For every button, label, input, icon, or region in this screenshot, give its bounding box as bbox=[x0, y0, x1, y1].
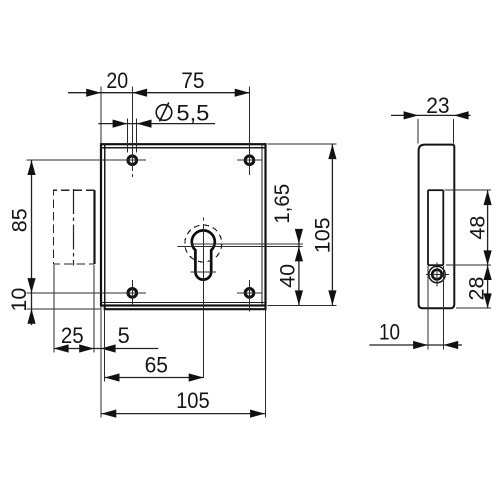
dimension 48 and 28 vertical line bbox=[487, 190, 489, 308]
crosshair H3 bbox=[26, 280, 146, 305]
arrow right 25/5 shared bbox=[79, 344, 94, 352]
dimension 20 and 75 top line bbox=[68, 92, 250, 94]
front view lock case outer plate bbox=[101, 144, 266, 305]
dimension 1,65 and 40 vertical line bbox=[298, 230, 300, 306]
arrow down 40 bottom bbox=[295, 290, 303, 305]
arrow right 75 end bbox=[235, 89, 250, 97]
svg-text:10: 10 bbox=[379, 319, 400, 344]
side view outer case bbox=[419, 145, 455, 309]
hole edge extension lines for diameter dim bbox=[127, 119, 136, 153]
extension slot left down bbox=[427, 266, 429, 350]
cylinder horizontal centerline bbox=[178, 246, 303, 248]
side view screw hole outer bbox=[429, 266, 445, 282]
arrow up 105 right bbox=[328, 144, 336, 159]
extension slot right down bbox=[442, 266, 444, 350]
extension slot top right bbox=[445, 189, 492, 191]
front view inner plate line top bbox=[101, 147, 266, 149]
arrow left 25 bbox=[54, 344, 69, 352]
side view slot left edge bbox=[427, 190, 429, 265]
arrow down 28 bottom bbox=[484, 293, 492, 308]
screw hole H3 bottom-left bbox=[128, 289, 137, 298]
dimension 25 and 5 line bbox=[54, 348, 159, 350]
front view inner plate line bottom bbox=[101, 302, 266, 304]
svg-text:85: 85 bbox=[8, 208, 32, 232]
svg-text:28: 28 bbox=[465, 277, 489, 301]
dimension 23 line bbox=[391, 114, 471, 116]
arrow left at hole right edge bbox=[137, 120, 152, 128]
svg-text:65: 65 bbox=[145, 353, 168, 378]
arrow up 85 top bbox=[27, 160, 35, 175]
svg-text:75: 75 bbox=[181, 68, 204, 93]
svg-text:105: 105 bbox=[176, 388, 210, 413]
arrow down at upper line bbox=[295, 229, 303, 244]
hidden cylinder hole dashed circle bbox=[185, 225, 222, 262]
extension line box left top bbox=[100, 87, 102, 143]
cylinder vertical centerline bbox=[202, 218, 204, 378]
arrow left at hole center ext bbox=[132, 89, 147, 97]
arrow right 105 bottom bbox=[250, 410, 265, 418]
extension top right bbox=[268, 143, 337, 145]
extension case bottom right bbox=[456, 307, 491, 309]
extension slot bottom right bbox=[446, 264, 491, 266]
bolt face solid edge bbox=[93, 190, 95, 264]
crosshair H4 bbox=[237, 280, 262, 312]
extension bolt left down bbox=[53, 265, 55, 353]
extension bottom right bbox=[268, 304, 337, 306]
arrow left 23 right outside bbox=[454, 111, 469, 119]
dimension 105 right vertical line bbox=[331, 144, 333, 305]
front view bottom lip bbox=[105, 306, 266, 310]
neck center tick bbox=[190, 271, 216, 273]
arrow down 105 right bbox=[328, 290, 336, 305]
svg-text:25: 25 bbox=[61, 323, 84, 348]
svg-text:40: 40 bbox=[275, 264, 299, 288]
arrow right 65 bbox=[189, 373, 204, 381]
arrow left 5 right outside bbox=[101, 344, 116, 352]
extension box right down bbox=[265, 310, 267, 418]
bolt hidden outline dashed bbox=[54, 190, 95, 264]
svg-text:23: 23 bbox=[426, 93, 449, 118]
dimension 85 and 10 left line bbox=[31, 160, 33, 325]
dimension 105 bottom line bbox=[102, 413, 265, 415]
extension box left down bbox=[100, 307, 102, 418]
arrow right 23 left outside bbox=[404, 111, 419, 119]
dimension 10 side line bbox=[369, 344, 462, 346]
front view inner plate line right bbox=[261, 144, 263, 305]
front view inner plate line left bbox=[104, 144, 106, 305]
arrow up at center line bbox=[295, 247, 303, 262]
arrow right at box left ext bbox=[86, 89, 101, 97]
side view slot right edge bbox=[442, 190, 444, 265]
svg-text:48: 48 bbox=[466, 216, 490, 240]
cylinder hole center line upper bbox=[191, 243, 303, 245]
svg-text:5,5: 5,5 bbox=[176, 100, 209, 125]
euro profile cylinder outline bbox=[192, 230, 215, 279]
svg-text:10: 10 bbox=[7, 288, 31, 312]
svg-text:1,65: 1,65 bbox=[270, 184, 294, 224]
svg-text:105: 105 bbox=[310, 217, 334, 253]
extension 23 right bbox=[453, 119, 455, 144]
arrow left 10 side right outside bbox=[443, 341, 458, 349]
crosshair H1 bbox=[26, 87, 146, 177]
extension 23 left bbox=[417, 119, 419, 144]
extension inner plate down bbox=[104, 310, 106, 382]
svg-text:20: 20 bbox=[106, 68, 128, 93]
diameter symbol bbox=[156, 103, 172, 122]
screw hole H2 top-right bbox=[245, 156, 254, 165]
extension line bottom lip left bbox=[26, 308, 101, 310]
arrow up 48 top bbox=[484, 190, 492, 205]
arrow down 85 bottom bbox=[27, 278, 35, 293]
screw hole H4 bottom-right bbox=[245, 289, 254, 298]
side view slot top bbox=[428, 189, 443, 191]
arrow left 105 bottom bbox=[102, 410, 117, 418]
arrow right 10 side left outside bbox=[413, 341, 428, 349]
arrow up 10 bottom outside bbox=[27, 309, 35, 324]
crosshair H2 bbox=[237, 87, 262, 175]
extension bolt face down bbox=[93, 265, 95, 353]
dimension diameter 5,5 line bbox=[98, 123, 215, 125]
svg-text:5: 5 bbox=[118, 323, 130, 348]
arrow right at hole left edge bbox=[113, 120, 128, 128]
bolt centerline bbox=[73, 189, 75, 266]
dimension 65 line bbox=[105, 377, 204, 379]
side view screw hole inner bbox=[432, 270, 442, 280]
side view hole crosshair bbox=[426, 263, 449, 287]
screw hole H1 top-left bbox=[128, 156, 137, 165]
side view slot bottom step bbox=[428, 264, 443, 266]
arrow down 48 bottom bbox=[484, 250, 492, 265]
arrow up 28 top bbox=[484, 265, 492, 280]
arrow left 65 bbox=[105, 373, 120, 381]
